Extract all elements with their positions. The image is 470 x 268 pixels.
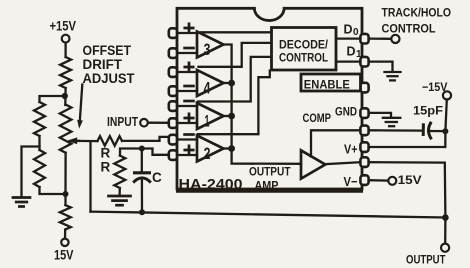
wire pin to amp1 bottom input — [177, 122, 197, 124]
svg-text:R: R — [101, 146, 111, 161]
pin V- — [360, 175, 368, 185]
terminal INPUT — [140, 119, 148, 127]
IC bottom edge heavy line — [176, 189, 363, 193]
pin D1 — [360, 57, 368, 67]
wire -15V down to junction and V+ pin — [369, 100, 447, 148]
pin ENABLE — [360, 83, 368, 93]
junction amp2 output — [228, 145, 235, 152]
pin COMP — [360, 126, 368, 136]
wire decode to D1 pin — [336, 60, 360, 62]
wire C2 to -15V line — [429, 130, 446, 132]
wire pin to amp2 top input — [177, 138, 197, 140]
svg-text:V+: V+ — [344, 142, 358, 157]
terminal 15V bottom — [61, 239, 68, 246]
svg-text:15pF: 15pF — [413, 104, 443, 118]
label amp3 input signs — [185, 24, 193, 32]
svg-text:HA-2400: HA-2400 — [179, 177, 243, 193]
svg-text:D: D — [344, 23, 353, 37]
junction bus to OUTPUT riser — [442, 214, 449, 221]
svg-text:15V: 15V — [54, 247, 74, 263]
wire output amp to out pin — [325, 162, 360, 164]
svg-text:DECODE/: DECODE/ — [279, 38, 329, 52]
svg-text:INPUT: INPUT — [107, 115, 138, 129]
ground G1 — [109, 196, 131, 205]
svg-text:OUTPUT: OUTPUT — [406, 253, 446, 267]
terminal TRACK/HOLD CONTROL — [391, 35, 399, 43]
svg-text:OFFSET: OFFSET — [83, 43, 132, 58]
pin amp3 - input — [169, 48, 177, 58]
label amp1 input signs — [185, 100, 194, 103]
pin V+ — [360, 142, 368, 152]
pin amp2 - input — [169, 135, 177, 145]
block DECODE/CONTROL — [272, 28, 337, 71]
wire COMP internal — [311, 130, 360, 156]
ground G3 — [385, 72, 401, 80]
svg-text:CONTROL: CONTROL — [279, 51, 328, 65]
op-amp U13 — [197, 32, 224, 58]
wire bottom node to R7 — [64, 194, 66, 205]
svg-text:1: 1 — [356, 49, 362, 60]
wire mid node to ground — [22, 147, 40, 198]
pin D0 — [360, 34, 368, 44]
pin amp4 - input — [169, 86, 177, 96]
pin amp3 + input — [169, 28, 177, 38]
svg-text:OUTPUT: OUTPUT — [249, 165, 291, 179]
capacitor C1 — [133, 171, 151, 174]
svg-text:V−: V− — [344, 174, 358, 189]
wire R5 to bottom node — [40, 187, 66, 194]
svg-text:0: 0 — [353, 27, 359, 38]
svg-text:R: R — [101, 160, 111, 175]
svg-text:2: 2 — [204, 144, 211, 163]
wire pot to bottom node — [64, 153, 66, 194]
wire R3 to node X — [64, 88, 67, 105]
svg-text:D: D — [347, 45, 356, 59]
terminal OUTPUT — [441, 244, 449, 252]
terminal -15V — [443, 91, 451, 99]
svg-text:ENABLE: ENABLE — [304, 78, 350, 92]
svg-text:DRIFT: DRIFT — [83, 57, 123, 72]
wire V- pin to 15V terminal — [369, 179, 388, 182]
pin amp4 + input — [169, 67, 177, 77]
op-amp U12 — [197, 136, 224, 162]
svg-text:COMP: COMP — [303, 113, 332, 125]
wire amp2 output stub — [224, 147, 232, 149]
wire decode to D0 pin — [336, 37, 360, 39]
svg-text:4: 4 — [204, 79, 211, 98]
pin amp1 + input — [169, 118, 177, 128]
pin output — [360, 157, 368, 167]
resistor R3 — [60, 57, 71, 88]
wire GND pin to ground — [369, 113, 391, 117]
wire decode select amp1 — [198, 57, 271, 102]
offset adjust pointer arrow — [80, 85, 83, 123]
wire R7 to -15V terminal — [64, 230, 66, 239]
pin amp2 + input — [169, 150, 177, 160]
resistor R2 — [114, 156, 125, 189]
resistor R5 — [34, 150, 45, 187]
svg-text:1: 1 — [205, 112, 210, 131]
svg-text:15V: 15V — [398, 173, 422, 187]
wire out pin to OUTPUT terminal — [369, 162, 445, 243]
svg-text:ADJUST: ADJUST — [83, 71, 136, 86]
bottom node junction — [63, 191, 69, 197]
wire pin to amp4 top input — [177, 71, 197, 73]
output bus bottom wire — [91, 212, 446, 218]
wire amp1 output stub — [224, 115, 232, 117]
junction amp4 output — [228, 80, 235, 87]
wire decode select amp3 — [201, 31, 271, 33]
resistor R1 — [98, 136, 123, 146]
junction C to bus — [139, 209, 145, 215]
wire INPUT to amp1 pin — [148, 122, 171, 124]
wire decode select amp2 — [198, 71, 270, 135]
terminal 15V right — [388, 177, 396, 185]
wire pin to amp2 bottom input — [177, 154, 197, 156]
op-amp U14 — [197, 70, 224, 96]
IC U1 HA-2400 package outline — [177, 8, 362, 189]
resistor R7 — [60, 205, 71, 230]
svg-text:AMP: AMP — [255, 179, 279, 193]
svg-text:C: C — [152, 170, 162, 185]
terminal +15V — [62, 35, 70, 43]
wire R2 to ground — [118, 188, 121, 196]
wire node B — [120, 149, 171, 156]
wire pot wiper to R1 — [75, 140, 98, 143]
pin amp1 - input — [169, 101, 177, 111]
wire pin to amp1 top input — [177, 105, 197, 107]
capacitor C1 top lead — [141, 149, 143, 172]
wire amp4 output stub — [224, 82, 232, 84]
block ENABLE — [301, 74, 361, 91]
pin GND — [360, 108, 368, 118]
wire +15V to R3 — [64, 43, 66, 57]
svg-text:+15V: +15V — [50, 18, 77, 33]
wire D1 to ground — [369, 62, 393, 72]
wire D0 to track/hold terminal — [369, 37, 391, 40]
potentiometer wiper arrow — [76, 140, 79, 142]
wire amp3 output to bus — [224, 45, 302, 164]
wire R4 to R5 — [38, 136, 40, 150]
label amp4 input signs — [185, 63, 193, 71]
op-amp output amp — [301, 150, 325, 178]
label amp2 input signs — [185, 133, 194, 136]
wire pin to amp4 bottom input — [177, 90, 197, 92]
junction amp1 output — [228, 113, 235, 120]
capacitor C2 15pF — [422, 123, 425, 136]
svg-text:CONTROL: CONTROL — [382, 22, 436, 36]
wire output bus riser — [89, 141, 91, 211]
ground G2 — [13, 198, 30, 207]
resistor R4 — [34, 102, 45, 136]
node B junction — [139, 146, 145, 152]
potentiometer R6 body — [60, 105, 72, 153]
wire R1 to amp2 inverting pin — [122, 137, 171, 141]
wire pin to amp3 bottom input — [177, 52, 197, 54]
wire decode select amp4 — [199, 43, 271, 67]
op-amp U11 — [197, 103, 224, 129]
wire pin to amp3 top input — [177, 32, 197, 34]
svg-text:TRACK/HOLO: TRACK/HOLO — [382, 6, 452, 20]
svg-text:3: 3 — [204, 40, 211, 59]
junction C2 / -15V — [442, 128, 448, 134]
capacitor C1 bottom lead — [141, 180, 143, 213]
svg-text:GND: GND — [335, 107, 357, 119]
wire node X to R4 — [40, 96, 65, 102]
ground G4 — [383, 118, 400, 126]
wire COMP pin to C2 — [369, 129, 421, 132]
node X junction — [62, 93, 68, 99]
